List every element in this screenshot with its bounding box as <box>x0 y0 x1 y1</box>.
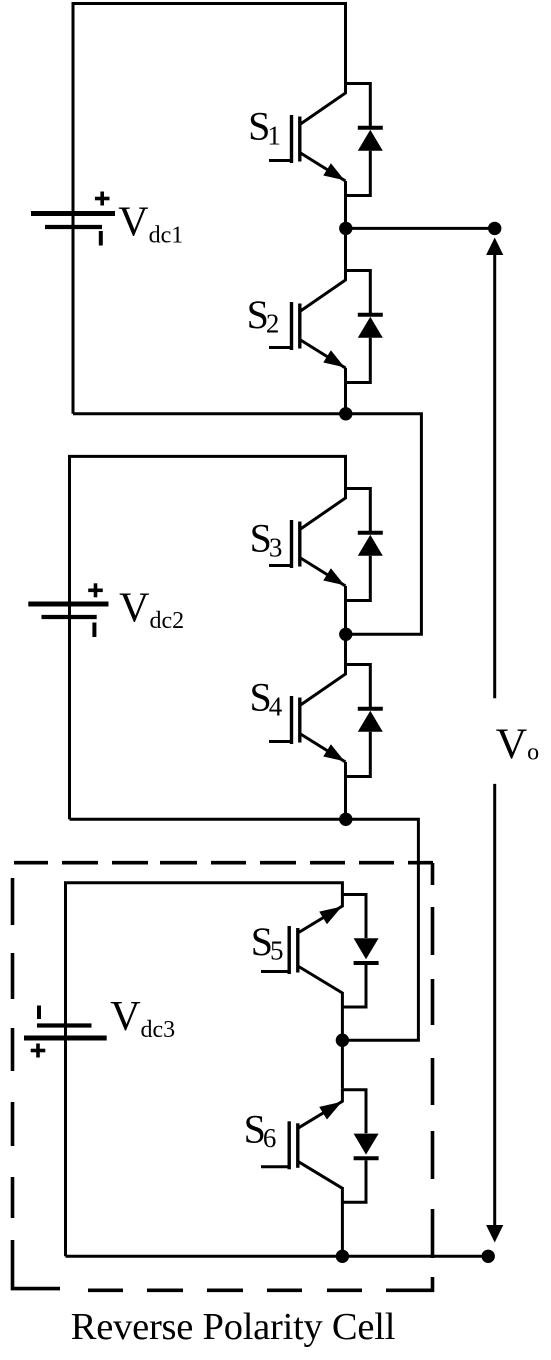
node A (S1-S2 midpoint) <box>339 222 352 235</box>
transistor S6: body bar <box>296 1123 299 1168</box>
diode D6 cathode bar <box>354 1156 379 1160</box>
node C (S5-S6 midpoint) <box>336 1034 349 1047</box>
wire: cell 3 bottom rail to output - terminal <box>66 1255 489 1258</box>
wire: cell 1 left leg, top rail and drop to S1 <box>73 4 346 414</box>
transistor S4: emitter lead <box>301 734 346 762</box>
wire: S5 top to diode branch <box>342 895 366 939</box>
transistor S2: gate bar <box>290 302 293 350</box>
wire: S2 collector to diode branch <box>346 271 371 314</box>
transistor S3: emitter arrow <box>323 568 344 585</box>
diode D2 cathode bar <box>358 313 383 317</box>
transistor S5: emitter lead (to top) <box>298 893 343 933</box>
diode D1 triangle (pointing up) <box>358 130 383 151</box>
wire: Vo measuring line upper segment <box>493 252 496 698</box>
transistor S2: emitter arrow <box>323 350 344 367</box>
svg-text:S1: S1 <box>248 104 281 151</box>
wire: S4 emitter down to cell 2 bottom rail <box>344 762 347 819</box>
wire: cell 1 bottom rail and connector down to cell 2 midpoint <box>73 414 421 635</box>
node: output - terminal <box>482 1250 495 1263</box>
wire: Vo measuring line lower segment <box>493 784 496 1228</box>
transistor S2: body bar <box>298 304 301 349</box>
svg-text:Vdc2: Vdc2 <box>119 585 184 634</box>
transistor S5: body bar <box>296 928 299 973</box>
transistor S1: gate lead <box>269 159 292 162</box>
arrowhead down at output - <box>486 1225 503 1243</box>
svg-text:Vdc1: Vdc1 <box>118 200 183 249</box>
dashed boundary of Reverse Polarity Cell <box>13 863 434 1291</box>
diode D5 triangle (pointing down) <box>354 938 379 959</box>
wire: diode anode to S2 emitter <box>346 338 371 383</box>
transistor S4: body bar <box>298 698 301 743</box>
transistor S3: collector lead <box>301 487 346 529</box>
wire: S5 bottom down to node C and on to S6 <box>341 992 344 1088</box>
diode D2 triangle (pointing up) <box>358 317 383 338</box>
svg-text:S5: S5 <box>251 919 284 966</box>
svg-text:S3: S3 <box>250 516 283 563</box>
battery Vdc1: minus tick <box>99 231 103 246</box>
battery Vdc3: minus tick <box>37 1006 41 1020</box>
transistor S1: collector lead <box>301 82 346 124</box>
svg-text:Vdc3: Vdc3 <box>110 994 175 1043</box>
wire: cell 2 left leg, top rail and drop to S3 <box>70 456 346 819</box>
svg-text:Reverse Polarity Cell: Reverse Polarity Cell <box>71 1306 396 1348</box>
transistor S1: body bar <box>298 117 301 162</box>
transistor S6: emitter arrow <box>319 1102 342 1120</box>
svg-text:S6: S6 <box>244 1107 277 1154</box>
wire: diode anode to S3 emitter <box>346 556 371 601</box>
transistor S2: collector lead <box>301 269 346 311</box>
node: cell 2 bottom junction <box>339 813 352 826</box>
transistor S4: collector lead <box>301 663 346 705</box>
diode D1 cathode bar <box>358 126 383 130</box>
wire: S3 collector to diode branch <box>346 489 371 532</box>
diode D5 cathode bar <box>354 961 379 965</box>
transistor S3: body bar <box>298 522 301 567</box>
node: cell 3 bottom junction <box>336 1250 349 1263</box>
battery Vdc3: short plate <box>37 1023 92 1027</box>
battery Vdc1: long plate <box>31 211 115 216</box>
svg-text:S4: S4 <box>250 675 283 722</box>
diode D6 triangle (pointing down) <box>354 1134 379 1155</box>
transistor S5: emitter arrow <box>319 907 342 925</box>
wire: diode cathode to S6 bottom <box>342 1160 366 1202</box>
transistor S4: gate bar <box>290 696 293 744</box>
wire: node A to output + terminal <box>346 227 495 230</box>
wire: S1 emitter down to node A and on to S2 <box>344 181 347 269</box>
wire: S1 collector to diode branch <box>346 84 371 127</box>
wire: diode anode to S4 emitter <box>346 732 371 777</box>
wire: S4 collector to diode branch <box>346 665 371 708</box>
transistor S3: emitter lead <box>301 558 346 586</box>
battery Vdc2: short plate <box>42 615 97 619</box>
transistor S6: emitter lead (to top) <box>298 1088 343 1128</box>
transistor S2: emitter lead <box>301 340 346 368</box>
node: output + terminal <box>488 222 501 235</box>
svg-text:Vo: Vo <box>496 720 539 768</box>
battery Vdc1: plus sign <box>95 197 110 201</box>
transistor S1: emitter lead <box>301 153 346 181</box>
wire: cell 2 bottom rail and connector down to cell 3 midpoint <box>70 819 419 1040</box>
transistor S5: collector lead <box>298 966 343 993</box>
battery Vdc3: plus sign <box>31 1049 46 1053</box>
battery Vdc2: plus sign <box>88 588 103 592</box>
battery Vdc2: minus tick <box>92 623 96 638</box>
transistor S2: gate lead <box>269 346 292 349</box>
wire: diode cathode to S5 bottom <box>342 965 366 1007</box>
transistor S1: emitter arrow <box>323 163 344 180</box>
wire: S6 top to diode branch <box>342 1090 366 1134</box>
transistor S6: gate bar <box>288 1121 291 1169</box>
transistor S6: gate lead <box>261 1165 289 1168</box>
node B (S3-S4 midpoint) <box>339 628 352 641</box>
transistor S4: emitter arrow <box>323 744 344 761</box>
battery Vdc2: long plate <box>28 602 108 607</box>
wire: S6 bottom down to cell 3 bottom rail <box>341 1187 344 1256</box>
transistor S5: gate bar <box>288 926 291 974</box>
wire: cell 3 left leg, top rail and drop to S5 <box>66 883 343 1257</box>
wire: diode anode to S1 emitter <box>346 151 371 196</box>
svg-text:S2: S2 <box>247 292 280 339</box>
transistor S5: gate lead <box>261 970 289 973</box>
battery Vdc1: short plate <box>45 225 102 229</box>
wire: S3 emitter down to node B and on to S4 <box>344 586 347 663</box>
battery Vdc3: long plate <box>24 1036 107 1041</box>
transistor S4: gate lead <box>269 740 292 743</box>
wire: S2 emitter down to cell 1 bottom rail <box>344 368 347 414</box>
diode D3 cathode bar <box>358 531 383 535</box>
diode D4 triangle (pointing up) <box>358 711 383 732</box>
transistor S6: collector lead <box>298 1161 343 1188</box>
transistor S1: gate bar <box>290 115 293 163</box>
diode D3 triangle (pointing up) <box>358 535 383 556</box>
diode D4 cathode bar <box>358 707 383 711</box>
node: cell 1 bottom junction <box>339 407 352 420</box>
transistor S3: gate lead <box>269 564 292 567</box>
transistor S3: gate bar <box>290 520 293 568</box>
arrowhead up at output + <box>486 238 503 256</box>
